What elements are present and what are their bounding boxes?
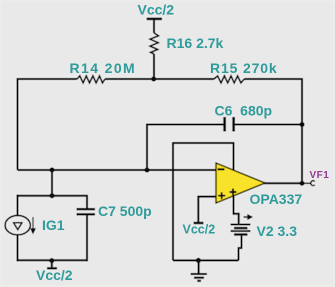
battery V2 polarity arrow [244,215,252,219]
wire inverting-input net (left vertical to op-amp minus) [18,169,216,171]
wire IG1 branch vertical [51,170,53,196]
power supply Vcc/2 bar (middle) [194,222,204,224]
resistor R14 (horizontal zigzag) [77,76,105,83]
svg-text:R15 270k: R15 270k [210,60,278,76]
power supply Vcc/2 stub (bottom-left) [51,260,53,267]
svg-text:Vcc/2: Vcc/2 [138,2,175,18]
svg-text:Vcc/2: Vcc/2 [36,267,73,283]
wire C6 right lead [235,124,302,126]
svg-text:Vcc/2: Vcc/2 [183,223,216,237]
wire IG1 box top rail [17,195,89,197]
wire op-amp plus input to Vcc/2 stub [198,197,216,222]
svg-text:V2 3.3: V2 3.3 [257,223,298,239]
wire C6 left lead [147,125,224,171]
junction dot (IG1 branch on minus net) [50,168,55,173]
wire C7 top lead [86,196,88,209]
wire op-amp bottom supply pin to battery top [234,196,239,224]
svg-text:OPA337: OPA337 [250,191,303,207]
svg-text:R16 2.7k: R16 2.7k [167,35,224,51]
svg-text:VF1: VF1 [310,170,330,181]
junction dot (output / right vertical) [300,181,305,186]
wire IG1 box bottom rail [17,259,88,261]
op-amp minus input mark [218,168,225,170]
current source IG1 inner arrow triangle [14,223,22,230]
junction dot (Vcc/2 stub on IG1 bottom rail) [49,258,54,263]
power supply Vcc/2 bar symbol (top) [147,18,162,21]
ground symbol [191,260,207,280]
resistor R16 (vertical zigzag) [150,33,159,54]
junction dot (C6 / right vertical) [300,122,305,127]
power supply Vcc/2 bar (bottom-left) [47,267,57,269]
wire Vcc/2 bar to R16 top [153,20,155,34]
svg-text:R14 20M: R14 20M [70,60,137,76]
wire battery bottom to bottom rail [239,236,242,261]
wire IG1 top lead [17,195,19,216]
op-amp U1 OPA337 triangle body [216,163,265,203]
svg-text:C7 500p: C7 500p [98,203,152,219]
wire op-amp output to right vertical [264,182,302,184]
op-amp plus input mark [218,192,225,199]
wire bottom rail [173,259,239,261]
svg-text:C6 680p: C6 680p [215,103,273,119]
op-amp positive-supply plus mark [230,189,237,196]
wire R15 to right corner, down right side [244,79,302,183]
junction dot (IG1 box top) [50,193,55,198]
junction dot (C6 branch on minus net) [145,168,150,173]
wire top-left corner to R14 [18,79,78,170]
wire op-amp top supply pin to bottom rail (rectangle path) [173,143,234,260]
voltage pin VF1 (open circle) [305,182,311,184]
wire C7 bottom lead [86,216,88,262]
current source IG1 circle [5,216,30,235]
wire IG1 bottom lead [17,235,19,261]
capacitor C7 plates [77,208,96,216]
current direction arrow [31,217,35,233]
resistor R15 (horizontal zigzag) [214,76,244,83]
svg-text:IG1: IG1 [42,217,65,233]
battery V2 plates [231,224,251,236]
wire R16 bottom to junction [153,54,155,79]
wire R14 to R15 (through junction) [105,78,214,80]
junction dot (ground on bottom rail) [196,258,201,263]
capacitor C6 plates [223,117,235,132]
junction dot (R16 / top wire) [151,77,156,82]
